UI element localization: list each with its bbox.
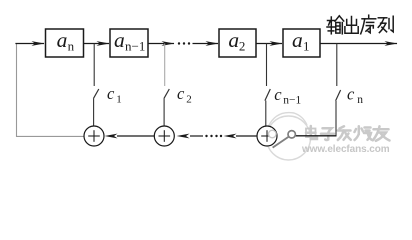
adder A2 (under c2): [154, 126, 174, 146]
label c2: [177, 84, 192, 106]
电: [306, 129, 316, 138]
wire adder A2 to adder A1: [117, 135, 154, 137]
switch c_n: upper wire: [336, 44, 338, 87]
adder A1 (under c1): [84, 126, 104, 146]
switch c_n-1: upper wire: [266, 44, 268, 87]
arrowhead mid-wire after a_n-1: [162, 41, 175, 46]
register a_2: [219, 28, 256, 57]
wire a_n to a_n-1: [84, 43, 110, 45]
arrowhead into adder A2: [177, 134, 190, 139]
arrowhead toward ellipsis (left): [224, 134, 237, 139]
svg-text:a: a: [292, 28, 303, 52]
switch c2: blade: [164, 89, 169, 99]
wire ellipsis to adder A2: [190, 135, 203, 137]
svg-text:c: c: [177, 84, 185, 103]
arrowhead output: [385, 41, 398, 46]
wire: feedback vertical left: [16, 44, 18, 137]
arrowhead into a_2: [206, 41, 219, 46]
svg-text:a: a: [228, 28, 239, 52]
列: [378, 17, 387, 19]
switch c_n-1: blade: [265, 89, 270, 101]
烧: [358, 126, 361, 134]
switch c_n: lower wire: [335, 101, 337, 136]
wire adder A3 to ellipsis: [236, 135, 257, 137]
label c_n: [347, 85, 363, 106]
label 输出序列 (output sequence): [327, 15, 393, 34]
wire: feedback bottom into adder A1: [16, 135, 84, 137]
子: [323, 128, 332, 133]
svg-text:n: n: [68, 38, 75, 53]
arrowhead into a_n-1: [97, 41, 110, 46]
switch c1: blade: [93, 89, 98, 99]
输: [328, 20, 335, 22]
svg-text:www.elecfans.com: www.elecfans.com: [301, 144, 390, 155]
svg-text:n−1: n−1: [283, 95, 301, 107]
wire ellipsis to a_2: [193, 43, 219, 45]
wire a_2 to a_1: [256, 43, 282, 45]
switch c2: upper wire: [164, 44, 166, 87]
svg-text:c: c: [347, 85, 355, 104]
switch c1: upper wire: [93, 44, 95, 87]
label c_n-1: [274, 85, 301, 107]
register a_n: [46, 28, 84, 57]
switch c_n-1: lower wire: [265, 101, 267, 127]
svg-text:1: 1: [116, 94, 122, 106]
序: [368, 15, 370, 18]
发: [340, 126, 345, 128]
arrowhead into a_1: [270, 41, 283, 46]
arrowhead into adder A1: [105, 134, 118, 139]
svg-text:n−1: n−1: [125, 38, 145, 53]
watermark logo big circle: [267, 113, 311, 160]
svg-text:c: c: [274, 85, 282, 104]
wire a_n-1 to ellipsis: [148, 43, 174, 45]
switch c_n: blade: [336, 90, 341, 101]
友: [374, 128, 389, 131]
svg-text:2: 2: [239, 38, 246, 53]
watermark logo needle ring (over circuit): [269, 130, 296, 147]
ellipsis dots top: [178, 42, 190, 44]
svg-text:c: c: [107, 84, 115, 103]
switch c2: lower wire: [163, 99, 165, 127]
svg-text:a: a: [57, 28, 68, 52]
register a_n-1: [110, 28, 148, 57]
watermark text 电子发烧友: [306, 126, 390, 141]
svg-text:1: 1: [303, 38, 310, 53]
output wire: [320, 43, 397, 45]
register a_1: [283, 28, 320, 57]
ellipsis dots bottom: [205, 135, 222, 137]
svg-text:a: a: [114, 28, 125, 52]
svg-text:2: 2: [186, 94, 192, 106]
出: [351, 17, 353, 34]
svg-text:n: n: [357, 94, 363, 106]
label c1: [107, 84, 122, 106]
adder A3 (under c_n-1): [257, 126, 277, 146]
arrowhead into a_n: [32, 41, 45, 46]
wire c_n column to adder A3: [295, 135, 337, 137]
wire into register a_n: [15, 43, 44, 45]
switch c1: lower wire: [93, 99, 95, 127]
